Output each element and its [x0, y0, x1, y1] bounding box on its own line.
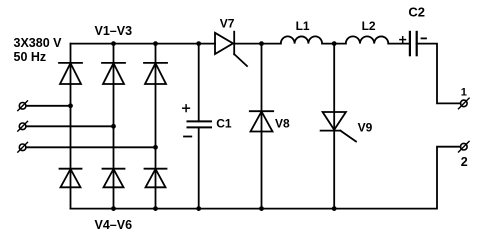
wire top bus — [71, 43, 216, 45]
svg-text:V4–V6: V4–V6 — [95, 218, 133, 232]
wire phase B input — [26, 125, 113, 127]
junction top C1 — [196, 41, 201, 46]
wire bottom bus — [71, 147, 461, 209]
terminal phase A — [18, 101, 28, 111]
label C1 minus — [184, 136, 191, 138]
svg-text:2: 2 — [461, 155, 468, 169]
junction bottom leg2 — [111, 206, 116, 211]
diode V3 — [144, 63, 167, 84]
diode V6 — [145, 169, 167, 188]
junction top leg3 — [153, 41, 158, 46]
svg-text:50 Hz: 50 Hz — [14, 50, 47, 64]
svg-text:3X380 V: 3X380 V — [14, 36, 63, 50]
junction bottom V8 — [259, 206, 264, 211]
wire bridge leg 3 — [155, 44, 157, 209]
diode V2 — [102, 63, 125, 84]
diode V5 — [103, 169, 125, 188]
junction bottom V9 — [332, 206, 337, 211]
diode V1 — [59, 63, 82, 84]
terminal output 1 — [459, 98, 470, 109]
thyristor V7 — [215, 32, 247, 66]
svg-text:1: 1 — [461, 86, 467, 98]
svg-text:V7: V7 — [220, 17, 235, 31]
wire phase A input — [26, 105, 70, 107]
svg-text:L1: L1 — [296, 19, 310, 33]
thyristor V9 — [321, 44, 356, 209]
svg-text:V1–V3: V1–V3 — [95, 24, 133, 38]
wire bridge leg 1 — [70, 44, 72, 209]
capacitor C2 — [410, 32, 417, 55]
label C2 minus — [422, 37, 427, 39]
terminal output 2 — [459, 141, 470, 152]
label source 3X380 V 50 Hz — [14, 36, 63, 64]
svg-text:L2: L2 — [362, 19, 376, 33]
junction phase B leg2 — [111, 124, 116, 129]
terminal phase B — [18, 121, 28, 131]
label C1 plus — [183, 105, 190, 112]
wire top bus after V7 — [234, 43, 281, 45]
junction top V9 node — [332, 41, 337, 46]
wire between L1 and L2 — [322, 43, 346, 45]
svg-text:V8: V8 — [275, 117, 290, 131]
diode V8 — [250, 44, 273, 209]
label C2 plus — [400, 37, 406, 43]
junction bottom C1 — [196, 206, 201, 211]
wire C2 to terminal 1 — [417, 44, 461, 104]
svg-text:C2: C2 — [408, 4, 425, 19]
diode V4 — [60, 169, 82, 188]
svg-text:V9: V9 — [358, 120, 373, 134]
junction top V8 — [259, 41, 264, 46]
svg-text:C1: C1 — [216, 117, 232, 131]
wire L2 to C2 — [388, 43, 410, 45]
terminal phase C — [18, 142, 28, 152]
inductor L2 — [346, 36, 389, 43]
junction bottom leg3 — [153, 206, 158, 211]
capacitor C1 — [188, 44, 212, 209]
junction top leg2 — [111, 41, 116, 46]
junction phase A leg1 — [68, 103, 73, 108]
wire bridge leg 2 — [113, 44, 115, 209]
junction phase C leg3 — [153, 145, 158, 150]
wire phase C input — [26, 146, 155, 148]
inductor L1 — [281, 36, 322, 43]
